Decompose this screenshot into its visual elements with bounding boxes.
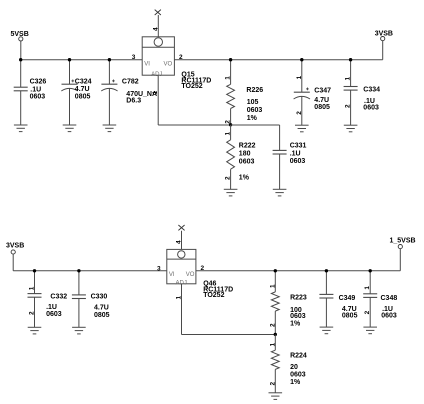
svg-text:C334: C334 bbox=[363, 87, 380, 94]
svg-text:0603: 0603 bbox=[247, 107, 263, 114]
svg-text:C332: C332 bbox=[50, 293, 67, 300]
svg-text:2: 2 bbox=[225, 120, 232, 124]
svg-text:0603: 0603 bbox=[30, 93, 46, 100]
svg-text:1: 1 bbox=[29, 286, 36, 290]
svg-text:2: 2 bbox=[364, 310, 371, 314]
svg-text:2: 2 bbox=[345, 104, 352, 108]
svg-text:R223: R223 bbox=[290, 295, 307, 302]
svg-text:1: 1 bbox=[269, 343, 276, 347]
svg-text:1: 1 bbox=[364, 286, 371, 290]
svg-text:0603: 0603 bbox=[290, 372, 306, 379]
svg-text:C782: C782 bbox=[122, 78, 139, 85]
svg-text:C326: C326 bbox=[30, 78, 47, 85]
svg-text:1: 1 bbox=[225, 132, 232, 136]
svg-text:1_5VSB: 1_5VSB bbox=[390, 238, 416, 245]
svg-text:2: 2 bbox=[296, 111, 303, 115]
svg-text:C331: C331 bbox=[290, 143, 307, 150]
svg-text:.1U: .1U bbox=[290, 150, 301, 157]
svg-text:C324: C324 bbox=[75, 78, 92, 85]
svg-text:R224: R224 bbox=[290, 352, 307, 359]
svg-text:3: 3 bbox=[157, 265, 161, 272]
svg-text:2: 2 bbox=[225, 176, 232, 180]
svg-text:VO: VO bbox=[186, 272, 195, 278]
svg-text:D6.3: D6.3 bbox=[126, 98, 141, 105]
svg-text:C348: C348 bbox=[381, 295, 398, 302]
svg-text:4.7U: 4.7U bbox=[94, 305, 109, 312]
svg-text:20: 20 bbox=[290, 364, 298, 371]
svg-text:TO252: TO252 bbox=[203, 292, 224, 299]
svg-text:0603: 0603 bbox=[381, 312, 397, 319]
svg-text:2: 2 bbox=[269, 382, 276, 386]
svg-text:1: 1 bbox=[225, 76, 232, 80]
svg-text:3: 3 bbox=[132, 54, 136, 61]
svg-text:R222: R222 bbox=[239, 143, 256, 150]
svg-text:.1U: .1U bbox=[46, 304, 57, 311]
svg-text:VI: VI bbox=[169, 272, 175, 278]
svg-text:2: 2 bbox=[179, 54, 183, 61]
svg-text:0805: 0805 bbox=[342, 312, 358, 319]
svg-text:0805: 0805 bbox=[314, 104, 330, 111]
svg-text:4.7U: 4.7U bbox=[75, 86, 90, 93]
svg-text:C349: C349 bbox=[339, 295, 356, 302]
svg-text:ADJ: ADJ bbox=[151, 72, 162, 78]
svg-text:0805: 0805 bbox=[75, 93, 91, 100]
svg-text:0603: 0603 bbox=[290, 313, 306, 320]
svg-text:3VSB: 3VSB bbox=[6, 243, 24, 250]
svg-text:1%: 1% bbox=[239, 175, 250, 182]
svg-text:2: 2 bbox=[201, 265, 205, 272]
svg-text:1: 1 bbox=[269, 284, 276, 288]
svg-text:1%: 1% bbox=[290, 379, 301, 386]
svg-text:1%: 1% bbox=[290, 321, 301, 328]
svg-text:0603: 0603 bbox=[239, 159, 255, 166]
svg-text:TO252: TO252 bbox=[181, 83, 202, 90]
svg-text:1: 1 bbox=[345, 77, 352, 81]
svg-text:4: 4 bbox=[176, 240, 183, 244]
svg-text:1%: 1% bbox=[247, 115, 258, 122]
svg-text:105: 105 bbox=[247, 99, 259, 106]
svg-text:VI: VI bbox=[144, 61, 150, 67]
svg-text:1: 1 bbox=[296, 75, 303, 79]
svg-text:4: 4 bbox=[152, 27, 159, 31]
svg-text:2: 2 bbox=[29, 311, 36, 315]
svg-text:0805: 0805 bbox=[94, 312, 110, 319]
svg-text:R226: R226 bbox=[246, 87, 263, 94]
svg-text:C347: C347 bbox=[314, 88, 331, 95]
svg-text:1: 1 bbox=[152, 91, 159, 95]
svg-text:180: 180 bbox=[239, 150, 251, 157]
svg-text:2: 2 bbox=[269, 323, 276, 327]
svg-text:C330: C330 bbox=[91, 293, 108, 300]
svg-text:0603: 0603 bbox=[363, 104, 379, 111]
svg-text:1: 1 bbox=[176, 296, 183, 300]
svg-text:0603: 0603 bbox=[290, 158, 306, 165]
svg-text:0603: 0603 bbox=[46, 311, 62, 318]
svg-text:VO: VO bbox=[164, 61, 173, 67]
